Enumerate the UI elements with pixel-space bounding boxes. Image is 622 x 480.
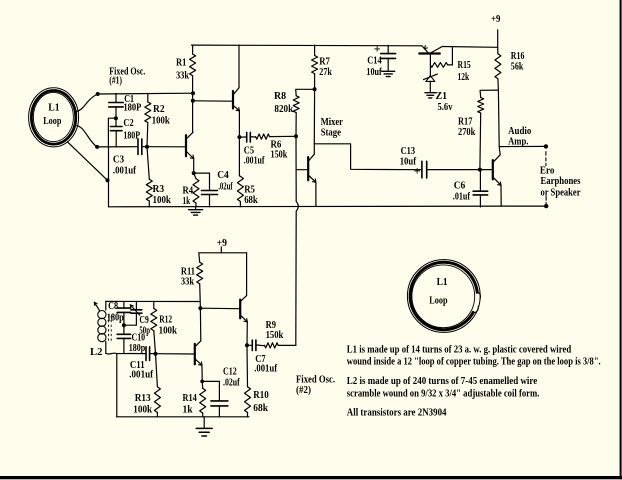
svg-text:.02uf: .02uf — [223, 378, 240, 389]
svg-text:C12: C12 — [223, 367, 237, 378]
label 150k (R6) — [271, 150, 288, 161]
resistor R17 — [478, 98, 484, 170]
label C2 — [123, 118, 133, 129]
wire: mixer base vertical down to osc2 (with hop over ground rail) — [296, 136, 299, 345]
wire: Q3 emitter to ground rail — [315, 182, 317, 206]
resistor R16 — [495, 47, 501, 90]
svg-text:68k: 68k — [244, 195, 258, 206]
inductor L2 — [98, 301, 106, 353]
svg-text:1k: 1k — [183, 405, 194, 416]
resistor R5 — [237, 176, 243, 207]
svg-text:150k: 150k — [271, 150, 288, 161]
label R6 — [271, 140, 282, 151]
svg-text:.01uf: .01uf — [453, 191, 471, 202]
node: lower output terminal dot — [544, 204, 548, 208]
label 33k (R11) — [181, 277, 195, 288]
svg-text:R12: R12 — [159, 314, 172, 325]
svg-text:L1 is made up of 14 turns of 2: L1 is made up of 14 turns of 23 a. w. g.… — [347, 344, 572, 355]
wire: dashed phone lead (upper) — [545, 152, 547, 166]
svg-text:R10: R10 — [253, 390, 268, 401]
svg-text:C6: C6 — [454, 181, 466, 192]
svg-text:C3: C3 — [113, 155, 124, 166]
wire: mixer base branch — [296, 169, 307, 171]
resistor R7 — [312, 45, 318, 89]
label C8 — [108, 301, 118, 312]
label C14 — [367, 56, 382, 67]
svg-text:C4: C4 — [217, 170, 229, 181]
svg-text:C10: C10 — [132, 333, 146, 344]
svg-text:.001uf: .001uf — [254, 364, 277, 375]
svg-text:270k: 270k — [458, 127, 476, 138]
wire: vertical ground-side wire x=108.5 — [108, 147, 110, 207]
svg-text:+: + — [414, 164, 421, 178]
svg-text:Stage: Stage — [321, 128, 342, 139]
svg-text:(#1): (#1) — [109, 76, 122, 87]
wire: osc2 +9 stub — [220, 247, 222, 253]
label R14 — [183, 393, 197, 404]
label Audio — [508, 126, 531, 137]
label .01uf (C6) — [453, 191, 471, 202]
transistor Q3 — [308, 154, 316, 182]
svg-text:C8: C8 — [108, 301, 118, 312]
ground: below C14 — [382, 71, 395, 76]
svg-text:56k: 56k — [511, 62, 524, 73]
label .001uf (C3) — [113, 165, 137, 176]
label Mixer — [321, 117, 344, 128]
label R4 — [183, 186, 194, 197]
node: R6/R8 junction dot — [294, 134, 298, 138]
resistor R6 — [256, 134, 296, 139]
label 1k (R14) — [183, 405, 194, 416]
resistor R4 — [193, 173, 199, 207]
svg-text:R5: R5 — [244, 185, 255, 196]
svg-text:wound inside a 12 "loop of cop: wound inside a 12 "loop of copper tubing… — [347, 357, 601, 368]
svg-text:or Speaker: or Speaker — [541, 188, 581, 199]
svg-text:.001uf: .001uf — [113, 165, 137, 176]
capacitor C14 — [381, 45, 396, 71]
node: audio output terminal dot — [544, 144, 548, 148]
capacitor C7 — [247, 340, 265, 350]
node: Q6 emitter node dot — [200, 380, 204, 384]
wire: C5 node down to R5 — [238, 137, 240, 176]
resistor R10 — [245, 345, 251, 417]
node: top tank node dot — [96, 92, 100, 96]
svg-text:(#2): (#2) — [296, 385, 311, 396]
node: R11 bottom / Q7 base dot — [198, 306, 202, 310]
svg-text:100k: 100k — [133, 405, 152, 416]
label R11 — [181, 266, 195, 277]
capacitor C5 — [239, 132, 255, 142]
resistor R8 — [293, 96, 299, 137]
wire: R16 bottom down to Q5 collector — [498, 90, 500, 155]
svg-text:L1: L1 — [437, 277, 448, 288]
wire: main top rail — [192, 44, 422, 47]
svg-text:+9: +9 — [491, 14, 500, 25]
transistor Q2 — [233, 88, 239, 111]
wire: Q7 emitter to C7 node — [246, 322, 248, 346]
label + (C14) — [374, 42, 381, 56]
label L2 — [90, 347, 103, 358]
label C10 — [132, 333, 146, 344]
node: R1 bottom / base line dot — [191, 99, 195, 103]
label 68k (R10) — [253, 403, 268, 414]
wire: L2 adjustable core arrow — [94, 302, 99, 310]
node: junction dot loop diagonal meets vertical — [105, 178, 109, 182]
svg-text:68k: 68k — [253, 403, 268, 414]
svg-text:.02uf: .02uf — [218, 182, 233, 193]
transistor Q4 — [419, 46, 442, 54]
capacitor C11 — [146, 347, 156, 361]
wire: L2 core dashed lines — [109, 316, 112, 342]
label 180p (C8) — [107, 313, 124, 324]
label .001uf (C11) — [129, 370, 153, 381]
resistor R2 — [145, 93, 151, 146]
node: Q1 emitter node dot — [192, 171, 196, 175]
wire: Q2 base wire — [193, 100, 233, 102]
wire: Q3 collector up to R7/R8 node — [313, 89, 315, 154]
label 100k (R13) — [133, 405, 152, 416]
svg-text:.001uf: .001uf — [129, 370, 153, 381]
label 33k (R1) — [176, 71, 189, 82]
capacitor C2 — [110, 118, 122, 147]
svg-text:5.6v: 5.6v — [438, 102, 453, 113]
svg-text:180p: 180p — [129, 343, 146, 354]
transistor Q7 — [240, 296, 247, 322]
svg-text:R4: R4 — [183, 186, 194, 197]
node: mid tank node dot — [95, 145, 99, 149]
label L1 (bottom loop) — [437, 277, 448, 288]
label R7 — [319, 56, 330, 67]
resistor R9 — [265, 343, 296, 348]
label Z1 — [436, 91, 448, 102]
transistor Q1 — [186, 132, 194, 158]
ground: below Z1 — [425, 93, 436, 98]
node: C8/C9/C10 junction dot — [122, 323, 126, 327]
wire: jog left of C2 junction down to mid wire — [108, 118, 116, 147]
label 270k (R17) — [458, 127, 476, 138]
wire: osc2 tank top wire — [106, 300, 200, 302]
label R10 — [253, 390, 268, 401]
label 820k (R8) — [274, 104, 293, 115]
resistor R15 — [430, 47, 452, 67]
wire: Q2 collector to top rail — [238, 45, 240, 88]
node: Q2 emitter / C5 node dot — [237, 135, 241, 139]
zener diode Z1 — [424, 65, 438, 93]
node: R7/R8/mixer node dot — [313, 87, 317, 91]
wire: emitter node to C4 — [194, 173, 210, 190]
wire: Q6 base wire — [156, 353, 195, 355]
capacitor C9 — [124, 302, 142, 326]
label C1 — [124, 94, 134, 105]
wire: +9 supply stub — [497, 30, 499, 48]
label C9 — [139, 315, 148, 326]
label 180P (C2) — [123, 131, 140, 142]
wire: Q2 emitter down to C5 node — [238, 111, 240, 137]
svg-text:Z1: Z1 — [436, 91, 448, 102]
svg-text:R16: R16 — [511, 51, 525, 62]
note: L1 description line 1 — [347, 344, 572, 355]
capacitor C4 — [202, 191, 218, 207]
svg-text:180P: 180P — [123, 103, 141, 114]
resistor R13 — [154, 354, 160, 417]
svg-text:Amp.: Amp. — [508, 137, 529, 148]
svg-text:Earphones: Earphones — [541, 176, 581, 187]
label C12 — [223, 367, 237, 378]
label 5.6v (Z1) — [438, 102, 453, 113]
svg-text:33k: 33k — [176, 71, 189, 82]
svg-text:Ero: Ero — [540, 166, 555, 177]
label 150k (R9) — [266, 330, 284, 341]
wire: osc2 ground rail — [117, 416, 250, 418]
inductor L1 loop symbol (bottom-right) — [407, 260, 480, 333]
wire: Q5 emitter down to ground rail — [500, 185, 502, 206]
capacitor C10 — [117, 325, 130, 353]
label 10uf (C13) — [400, 157, 417, 168]
wire: mixer collector out jog to C13 — [314, 144, 422, 170]
border: right black line — [620, 0, 622, 479]
svg-text:1k: 1k — [183, 196, 191, 207]
label C5 — [244, 146, 254, 157]
label R5 — [244, 185, 255, 196]
wire: Q1 emitter to node — [193, 159, 195, 174]
label 27k (R7) — [319, 67, 332, 78]
svg-text:R1: R1 — [176, 58, 186, 69]
svg-text:R9: R9 — [266, 320, 276, 331]
label .001uf (C5) — [244, 156, 265, 167]
wire: osc2 +9 rail — [199, 252, 247, 254]
wire: Q6 emitter to node — [201, 365, 203, 381]
note: L2 description line 2 — [347, 388, 540, 399]
resistor R14 — [200, 381, 206, 416]
svg-text:R3: R3 — [153, 184, 165, 195]
svg-text:180p: 180p — [107, 313, 124, 324]
label 180P (C1) — [123, 103, 141, 114]
svg-text:.001uf: .001uf — [244, 156, 265, 167]
label R17 — [458, 116, 472, 127]
label R13 — [135, 393, 151, 404]
label 180p (C10) — [129, 343, 146, 354]
svg-text:Audio: Audio — [508, 126, 531, 137]
label C11 — [130, 360, 145, 371]
label C3 — [113, 155, 124, 166]
label L1 (top loop) — [48, 102, 59, 113]
label Ero — [540, 166, 555, 177]
label C13 — [401, 146, 416, 157]
svg-text:820k: 820k — [274, 104, 293, 115]
transistor Q5 — [493, 155, 501, 185]
svg-text:R14: R14 — [183, 393, 197, 404]
node: Q7 emitter / C7 node dot — [245, 343, 249, 347]
svg-text:R17: R17 — [458, 116, 472, 127]
label Fixed Osc. (osc2) — [296, 375, 335, 386]
label 100k (R2) — [152, 116, 170, 127]
label C6 — [454, 181, 466, 192]
node: C13/R17/Q5-base node dot — [478, 168, 482, 172]
resistor R1 — [190, 45, 196, 132]
svg-text:C9: C9 — [139, 315, 148, 326]
ground: osc2 main ground — [196, 417, 212, 436]
wire: loop L1 shield diagonal to ground-side vertical — [67, 142, 107, 181]
svg-text:+9: +9 — [217, 238, 227, 249]
label R2 — [153, 104, 165, 115]
label .001uf (C7) — [254, 364, 277, 375]
label C4 — [217, 170, 229, 181]
wire: loop L1 upper terminal to top tank node — [77, 94, 98, 112]
wire: osc2 left vertical — [116, 354, 118, 417]
label +9 (osc2) — [217, 238, 227, 249]
label C7 — [255, 354, 265, 365]
wire: main ground rail — [109, 205, 547, 208]
wire: loop L1 lower terminal to mid tank node — [77, 126, 97, 147]
resistor R11 — [197, 253, 203, 308]
label Stage — [321, 128, 342, 139]
svg-text:L2 is made up of 240 turns of: L2 is made up of 240 turns of 7-45 ename… — [347, 376, 538, 387]
svg-text:100k: 100k — [153, 195, 172, 206]
wire: R8 top wire — [296, 89, 315, 96]
label .02uf (C4) — [218, 182, 233, 193]
capacitor C1 — [109, 93, 124, 118]
label 100k (R3) — [153, 195, 172, 206]
label Earphones — [541, 176, 581, 187]
inductor L1 search loop symbol (top-left) — [29, 88, 79, 147]
label or Speaker — [541, 188, 581, 199]
svg-text:33k: 33k — [181, 277, 195, 288]
label 68k (R5) — [244, 195, 258, 206]
border: bottom black bar — [0, 476, 622, 479]
svg-text:R7: R7 — [319, 56, 330, 67]
transistor Q6 — [195, 341, 202, 365]
wire: tank mid wire from node to C3 — [97, 146, 138, 148]
wire: Q7 base wire — [200, 307, 239, 310]
svg-text:12k: 12k — [458, 72, 470, 83]
wire: osc2 mid wire left — [106, 352, 146, 355]
wire: Q6 collector up to R11 node — [199, 308, 201, 341]
label Amp. — [508, 137, 529, 148]
label R12 — [159, 314, 172, 325]
node: C3/R2 junction dot — [145, 145, 149, 149]
label R15 — [458, 60, 471, 71]
capacitor C3 — [138, 139, 147, 155]
node: C11/R12/R13 junction dot — [154, 352, 158, 356]
capacitor C12 — [211, 401, 228, 417]
label Loop (bottom loop) — [429, 295, 448, 306]
svg-text:C13: C13 — [401, 146, 416, 157]
resistor R3 — [146, 147, 152, 207]
svg-text:R13: R13 — [135, 393, 151, 404]
wire: top rail right section — [442, 46, 498, 49]
label Fixed Osc. (osc1) — [109, 67, 145, 78]
label .02uf (C12) — [223, 378, 240, 389]
label +9 (top) — [491, 14, 500, 25]
svg-text:C14: C14 — [367, 56, 382, 67]
label 12k (R15) — [458, 72, 470, 83]
svg-text:100k: 100k — [159, 326, 178, 337]
wire: audio output wire — [499, 145, 546, 147]
svg-text:C2: C2 — [123, 118, 133, 129]
svg-text:+: + — [374, 42, 381, 56]
wire: tank top rail y=93.5 — [98, 92, 193, 95]
label 50p (C9) — [139, 326, 150, 337]
capacitor C8 — [117, 301, 130, 325]
node: C1/C2 junction dot — [114, 116, 118, 120]
svg-text:L1: L1 — [48, 102, 59, 113]
label 56k (R16) — [511, 62, 524, 73]
wire: Q4 base stem — [429, 55, 431, 65]
svg-text:10uf: 10uf — [366, 67, 382, 78]
label R16 — [511, 51, 525, 62]
note: L2 description line 1 — [347, 376, 538, 387]
label 100k (R12) — [159, 326, 178, 337]
wire: Q5 base wire — [480, 169, 492, 171]
svg-text:27k: 27k — [319, 67, 332, 78]
svg-text:R15: R15 — [458, 60, 471, 71]
svg-text:Mixer: Mixer — [321, 117, 344, 128]
svg-text:L2: L2 — [90, 347, 103, 358]
wire: Q7 collector to osc2 rail — [246, 253, 248, 296]
capacitor C6 — [473, 170, 488, 207]
note: L1 description line 2 — [347, 357, 601, 368]
label (#2) — [296, 385, 311, 396]
capacitor C13 — [422, 161, 480, 178]
label 1k (R4) — [183, 196, 191, 207]
wire: dashed phone lead (lower) — [545, 197, 547, 205]
wire: base wire of Q1 — [147, 146, 185, 148]
resistor R12 — [151, 302, 157, 354]
note: transistor note — [347, 408, 447, 419]
label Loop (top loop) — [43, 116, 62, 127]
svg-text:100k: 100k — [152, 116, 170, 127]
label + (C13) — [414, 164, 421, 178]
svg-text:All transistors are 2N3904: All transistors are 2N3904 — [347, 408, 447, 419]
svg-text:R2: R2 — [153, 104, 165, 115]
label R1 — [176, 58, 186, 69]
label R3 — [153, 184, 165, 195]
label 10uf (C14) — [366, 67, 382, 78]
svg-text:150k: 150k — [266, 330, 284, 341]
label R9 — [266, 320, 276, 331]
node: R1 bottom / tank dot — [191, 91, 195, 95]
label R8 — [274, 91, 286, 102]
svg-text:scramble wound on 9/32 x 3/4": scramble wound on 9/32 x 3/4" adjustable… — [347, 388, 540, 399]
label (#1) — [109, 76, 122, 87]
svg-text:R8: R8 — [274, 91, 286, 102]
wire: Q6 emitter to C12 — [202, 381, 219, 401]
ground: below R4 — [189, 207, 203, 215]
svg-text:Loop: Loop — [43, 116, 62, 127]
wire: R17 top wire — [480, 90, 498, 97]
svg-text:Loop: Loop — [429, 295, 448, 306]
